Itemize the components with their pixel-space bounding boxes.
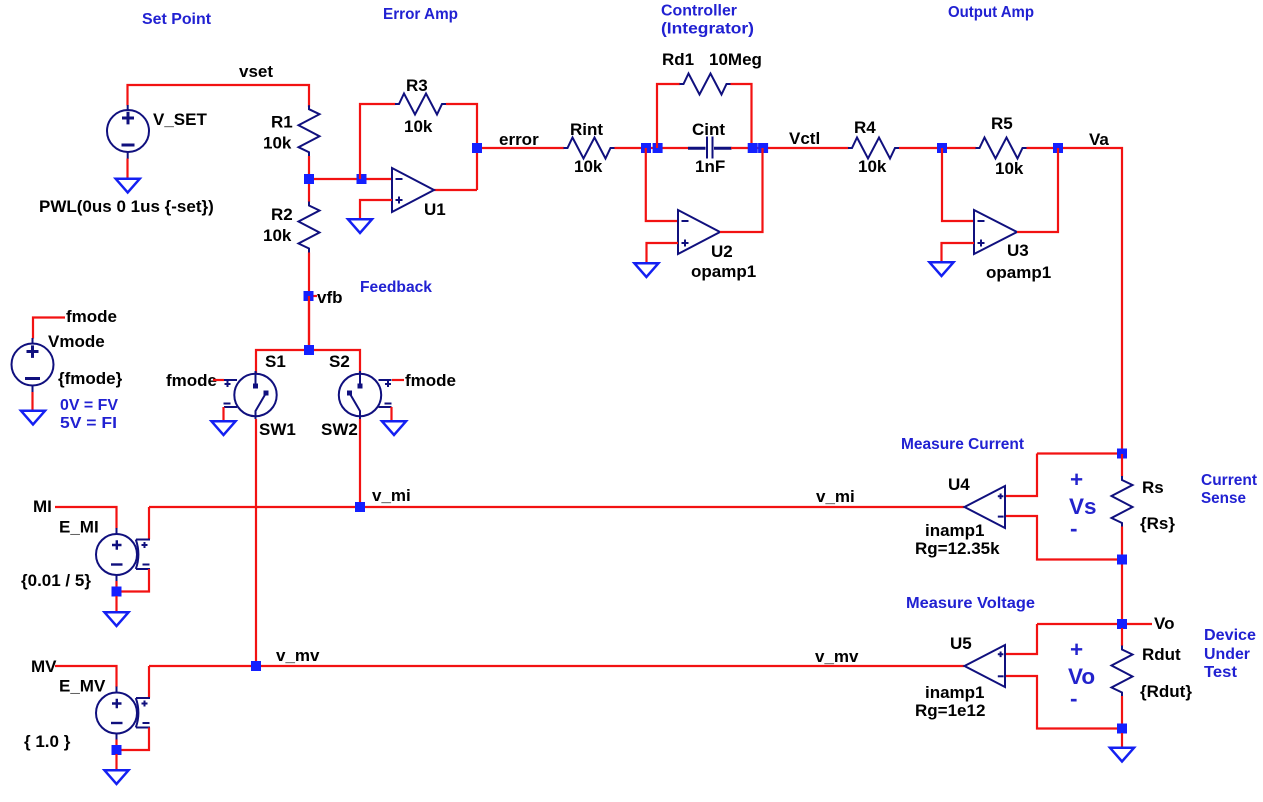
wire dut top bbox=[1037, 623, 1117, 625]
in-amp U4 bbox=[965, 486, 1006, 528]
switch S2 bbox=[339, 371, 392, 419]
svg-text:inamp1: inamp1 bbox=[925, 521, 985, 540]
wire S1 minus to ground bbox=[222, 407, 224, 422]
resistor R2 bbox=[299, 202, 320, 253]
wire E_MV to ground bbox=[115, 754, 117, 771]
wire sense plus bbox=[1004, 454, 1037, 497]
node junction Rs top bbox=[1117, 449, 1127, 459]
wire Vmode to ground bbox=[31, 392, 33, 412]
resistor R3 bbox=[395, 94, 446, 115]
svg-text:U1: U1 bbox=[424, 200, 446, 219]
svg-text:Feedback: Feedback bbox=[360, 279, 432, 296]
header Device Under Test bbox=[1204, 627, 1256, 681]
op-amp U2 bbox=[678, 210, 720, 254]
node junction switches bbox=[304, 345, 314, 355]
op-amp U1 bbox=[392, 168, 434, 212]
svg-text:R3: R3 bbox=[406, 76, 428, 95]
svg-text:fmode: fmode bbox=[166, 371, 217, 390]
wire Rs bottom lead bbox=[1121, 527, 1123, 625]
svg-text:Controller: Controller bbox=[661, 3, 737, 20]
wire Rd1 right branch bbox=[731, 84, 752, 148]
svg-text:Output Amp: Output Amp bbox=[948, 4, 1034, 21]
voltage source Vmode bbox=[12, 338, 54, 393]
svg-text:R2: R2 bbox=[271, 205, 293, 224]
resistor Rs bbox=[1112, 476, 1133, 527]
node junction Vo bbox=[1117, 619, 1127, 629]
svg-text:S1: S1 bbox=[265, 352, 286, 371]
wire Rs top lead bbox=[1121, 454, 1123, 477]
svg-text:Vmode: Vmode bbox=[48, 332, 105, 351]
svg-text:Rdut: Rdut bbox=[1142, 645, 1181, 664]
ground U3 bbox=[930, 262, 954, 276]
svg-text:{0.01 / 5}: {0.01 / 5} bbox=[21, 571, 91, 590]
wire U2 minus branch bbox=[646, 148, 678, 221]
wire divider node to U1 minus bbox=[309, 178, 392, 180]
ground below V_SET bbox=[116, 179, 140, 193]
svg-text:U3: U3 bbox=[1007, 241, 1029, 260]
wire E_MI ctrl plus bbox=[148, 507, 150, 539]
ground U2 bbox=[634, 263, 658, 277]
svg-text:Va: Va bbox=[1089, 130, 1109, 149]
node junction v_mv bbox=[251, 661, 261, 671]
wire fmode to S2 bbox=[392, 379, 404, 381]
svg-text:Under: Under bbox=[1204, 646, 1250, 663]
ground Vmode bbox=[21, 411, 45, 425]
svg-text:error: error bbox=[499, 130, 539, 149]
wire Rint to Cint bbox=[615, 147, 689, 149]
wire U3 minus branch bbox=[942, 148, 974, 221]
ground U1 bbox=[348, 219, 372, 233]
wire E_MV ctrl minus bbox=[121, 728, 149, 751]
svg-text:PWL(0us 0 1us {-set}): PWL(0us 0 1us {-set}) bbox=[39, 197, 214, 216]
wire U2 plus to ground bbox=[647, 243, 679, 264]
svg-text:+: + bbox=[1070, 467, 1083, 492]
svg-text:Measure Voltage: Measure Voltage bbox=[906, 595, 1035, 612]
wire S2 bottom bbox=[359, 419, 361, 507]
wire U1 output bbox=[434, 189, 477, 191]
node junction E_MI bottom bbox=[112, 587, 122, 597]
wire E_MV bottom bbox=[115, 740, 117, 751]
svg-text:E_MV: E_MV bbox=[59, 677, 106, 696]
svg-text:10Meg: 10Meg bbox=[709, 50, 762, 69]
svg-text:-: - bbox=[1070, 686, 1078, 711]
svg-text:MV: MV bbox=[31, 657, 57, 676]
ground S2 bbox=[382, 421, 406, 435]
header Controller (Integrator) bbox=[661, 3, 754, 38]
wire E_MI ctrl minus bbox=[121, 569, 149, 592]
svg-text:1nF: 1nF bbox=[695, 157, 725, 176]
svg-text:vfb: vfb bbox=[317, 288, 343, 307]
svg-text:R5: R5 bbox=[991, 114, 1013, 133]
wire R1 to R2 bbox=[308, 156, 310, 202]
svg-text:10k: 10k bbox=[858, 157, 887, 176]
source E_MV bbox=[96, 687, 150, 741]
wire sense minus bbox=[1004, 516, 1122, 560]
wire fmode stub Vmode bbox=[33, 318, 65, 339]
note plus Vo minus bbox=[1068, 637, 1095, 711]
wire R3 left branch bbox=[360, 104, 396, 179]
note plus Vs minus bbox=[1069, 467, 1097, 541]
svg-text:Test: Test bbox=[1204, 664, 1237, 681]
svg-text:+: + bbox=[1070, 637, 1083, 662]
capacitor Cint bbox=[688, 137, 732, 159]
svg-text:Rg=1e12: Rg=1e12 bbox=[915, 701, 985, 720]
wire Rd1 left branch bbox=[657, 84, 680, 148]
node junction Cint right a bbox=[748, 143, 758, 153]
wire U2 output bbox=[720, 148, 763, 232]
wire Vctl net bbox=[731, 147, 849, 149]
svg-text:V_SET: V_SET bbox=[153, 110, 207, 129]
node junction E_MV bottom bbox=[112, 745, 122, 755]
wire Vo stub bbox=[1122, 623, 1152, 625]
svg-text:Sense: Sense bbox=[1201, 490, 1246, 507]
wire dut minus bbox=[1004, 676, 1117, 729]
svg-text:{ 1.0 }: { 1.0 } bbox=[24, 732, 71, 751]
svg-text:Set Point: Set Point bbox=[142, 11, 211, 28]
switch S1 bbox=[224, 371, 277, 419]
wire v_mi long bbox=[149, 506, 964, 508]
svg-text:v_mv: v_mv bbox=[276, 646, 320, 665]
svg-text:10k: 10k bbox=[995, 159, 1024, 178]
wire R4 to R5 bbox=[899, 147, 976, 149]
svg-text:{Rdut}: {Rdut} bbox=[1140, 682, 1192, 701]
svg-text:Rg=12.35k: Rg=12.35k bbox=[915, 539, 1000, 558]
wire switch node horizontal bbox=[256, 350, 360, 375]
svg-text:fmode: fmode bbox=[66, 307, 117, 326]
svg-text:Current: Current bbox=[1201, 472, 1257, 489]
svg-text:inamp1: inamp1 bbox=[925, 683, 985, 702]
wire U3 plus to ground bbox=[942, 243, 975, 263]
svg-text:-: - bbox=[1070, 516, 1078, 541]
ground E_MI bbox=[105, 612, 129, 626]
wire dut plus bbox=[1004, 624, 1037, 654]
svg-text:Cint: Cint bbox=[692, 120, 725, 139]
svg-text:R4: R4 bbox=[854, 118, 876, 137]
wire error net bbox=[477, 147, 564, 149]
svg-text:Vo: Vo bbox=[1154, 614, 1174, 633]
node junction Cint right b bbox=[758, 143, 768, 153]
svg-text:Rint: Rint bbox=[570, 120, 603, 139]
wire sense top bbox=[1037, 452, 1122, 454]
svg-text:SW1: SW1 bbox=[259, 420, 296, 439]
svg-text:SW2: SW2 bbox=[321, 420, 358, 439]
svg-text:10k: 10k bbox=[263, 134, 292, 153]
wire E_MI to ground bbox=[115, 596, 117, 613]
node junction R4 R5 bbox=[937, 143, 947, 153]
svg-text:E_MI: E_MI bbox=[59, 518, 99, 537]
wire S1 bottom long bbox=[255, 419, 257, 666]
header Current Sense bbox=[1201, 472, 1257, 507]
wire E_MI bottom bbox=[115, 581, 117, 592]
node junction Cint left a bbox=[641, 143, 651, 153]
svg-text:Vctl: Vctl bbox=[789, 129, 820, 148]
svg-text:(Integrator): (Integrator) bbox=[661, 21, 754, 38]
resistor Rint bbox=[564, 138, 615, 159]
node junction Rdut bottom bbox=[1117, 724, 1127, 734]
svg-text:v_mi: v_mi bbox=[816, 487, 855, 506]
svg-text:fmode: fmode bbox=[405, 371, 456, 390]
node junction R5 out bbox=[1053, 143, 1063, 153]
svg-text:v_mv: v_mv bbox=[815, 647, 859, 666]
voltage source V_SET bbox=[107, 105, 149, 159]
wire v_mv long bbox=[149, 665, 964, 667]
svg-text:U2: U2 bbox=[711, 242, 733, 261]
wire E_MV ctrl plus bbox=[148, 666, 150, 698]
svg-text:v_mi: v_mi bbox=[372, 486, 411, 505]
svg-text:Device: Device bbox=[1204, 627, 1256, 644]
resistor Rdut bbox=[1112, 646, 1133, 697]
svg-text:R1: R1 bbox=[271, 113, 293, 132]
svg-text:{Rs}: {Rs} bbox=[1140, 514, 1175, 533]
resistor R1 bbox=[299, 105, 320, 156]
svg-text:Measure Current: Measure Current bbox=[901, 436, 1024, 453]
node junction U1 minus bbox=[357, 174, 367, 184]
node junction Cint left b bbox=[653, 143, 663, 153]
svg-text:U5: U5 bbox=[950, 634, 972, 653]
wire vfb down bbox=[308, 296, 310, 350]
svg-text:S2: S2 bbox=[329, 352, 350, 371]
node vfb bbox=[304, 291, 314, 301]
resistor R5 bbox=[976, 138, 1027, 159]
svg-text:{fmode}: {fmode} bbox=[58, 369, 123, 388]
wire vset top bbox=[128, 85, 310, 107]
node junction v_mi bbox=[355, 502, 365, 512]
svg-text:vset: vset bbox=[239, 62, 273, 81]
wire fmode to S1 bbox=[213, 379, 224, 381]
wire R2 down to switch node bbox=[308, 253, 310, 351]
wire Rdut top lead bbox=[1121, 628, 1123, 646]
resistor Rd1 bbox=[680, 74, 731, 95]
ground E_MV bbox=[105, 770, 129, 784]
svg-text:MI: MI bbox=[33, 497, 52, 516]
svg-text:Rd1: Rd1 bbox=[662, 50, 694, 69]
wire Va net bbox=[1027, 148, 1123, 454]
svg-text:5V = FI: 5V = FI bbox=[60, 415, 117, 432]
svg-text:10k: 10k bbox=[263, 226, 292, 245]
wire vfb stub bbox=[309, 295, 317, 297]
wire dut to ground bbox=[1121, 733, 1123, 749]
svg-text:10k: 10k bbox=[574, 157, 603, 176]
op-amp U3 bbox=[974, 210, 1017, 254]
node junction R1 R2 bbox=[304, 174, 314, 184]
svg-text:10k: 10k bbox=[404, 117, 433, 136]
node junction Rs bottom bbox=[1117, 555, 1127, 565]
ground DUT bbox=[1110, 748, 1134, 762]
node error junction bbox=[472, 143, 482, 153]
wire U3 output bbox=[1017, 148, 1058, 232]
wire R3 right branch bbox=[446, 104, 477, 190]
svg-text:opamp1: opamp1 bbox=[986, 263, 1051, 282]
in-amp U5 bbox=[965, 645, 1006, 687]
resistor R4 bbox=[848, 138, 899, 159]
wire MI to E_MI bbox=[55, 507, 117, 529]
svg-text:Rs: Rs bbox=[1142, 478, 1164, 497]
svg-text:Error Amp: Error Amp bbox=[383, 6, 458, 23]
wire MV to E_MV bbox=[55, 666, 117, 687]
wire Rdut bottom lead bbox=[1121, 696, 1123, 729]
wire U1 plus to ground bbox=[360, 200, 392, 220]
svg-text:opamp1: opamp1 bbox=[691, 262, 756, 281]
svg-text:U4: U4 bbox=[948, 475, 970, 494]
source E_MI bbox=[96, 528, 150, 582]
svg-text:0V = FV: 0V = FV bbox=[60, 397, 119, 414]
wire V_SET to ground bbox=[126, 159, 128, 181]
wire S2 minus to ground bbox=[390, 407, 392, 422]
ground S1 bbox=[212, 421, 236, 435]
